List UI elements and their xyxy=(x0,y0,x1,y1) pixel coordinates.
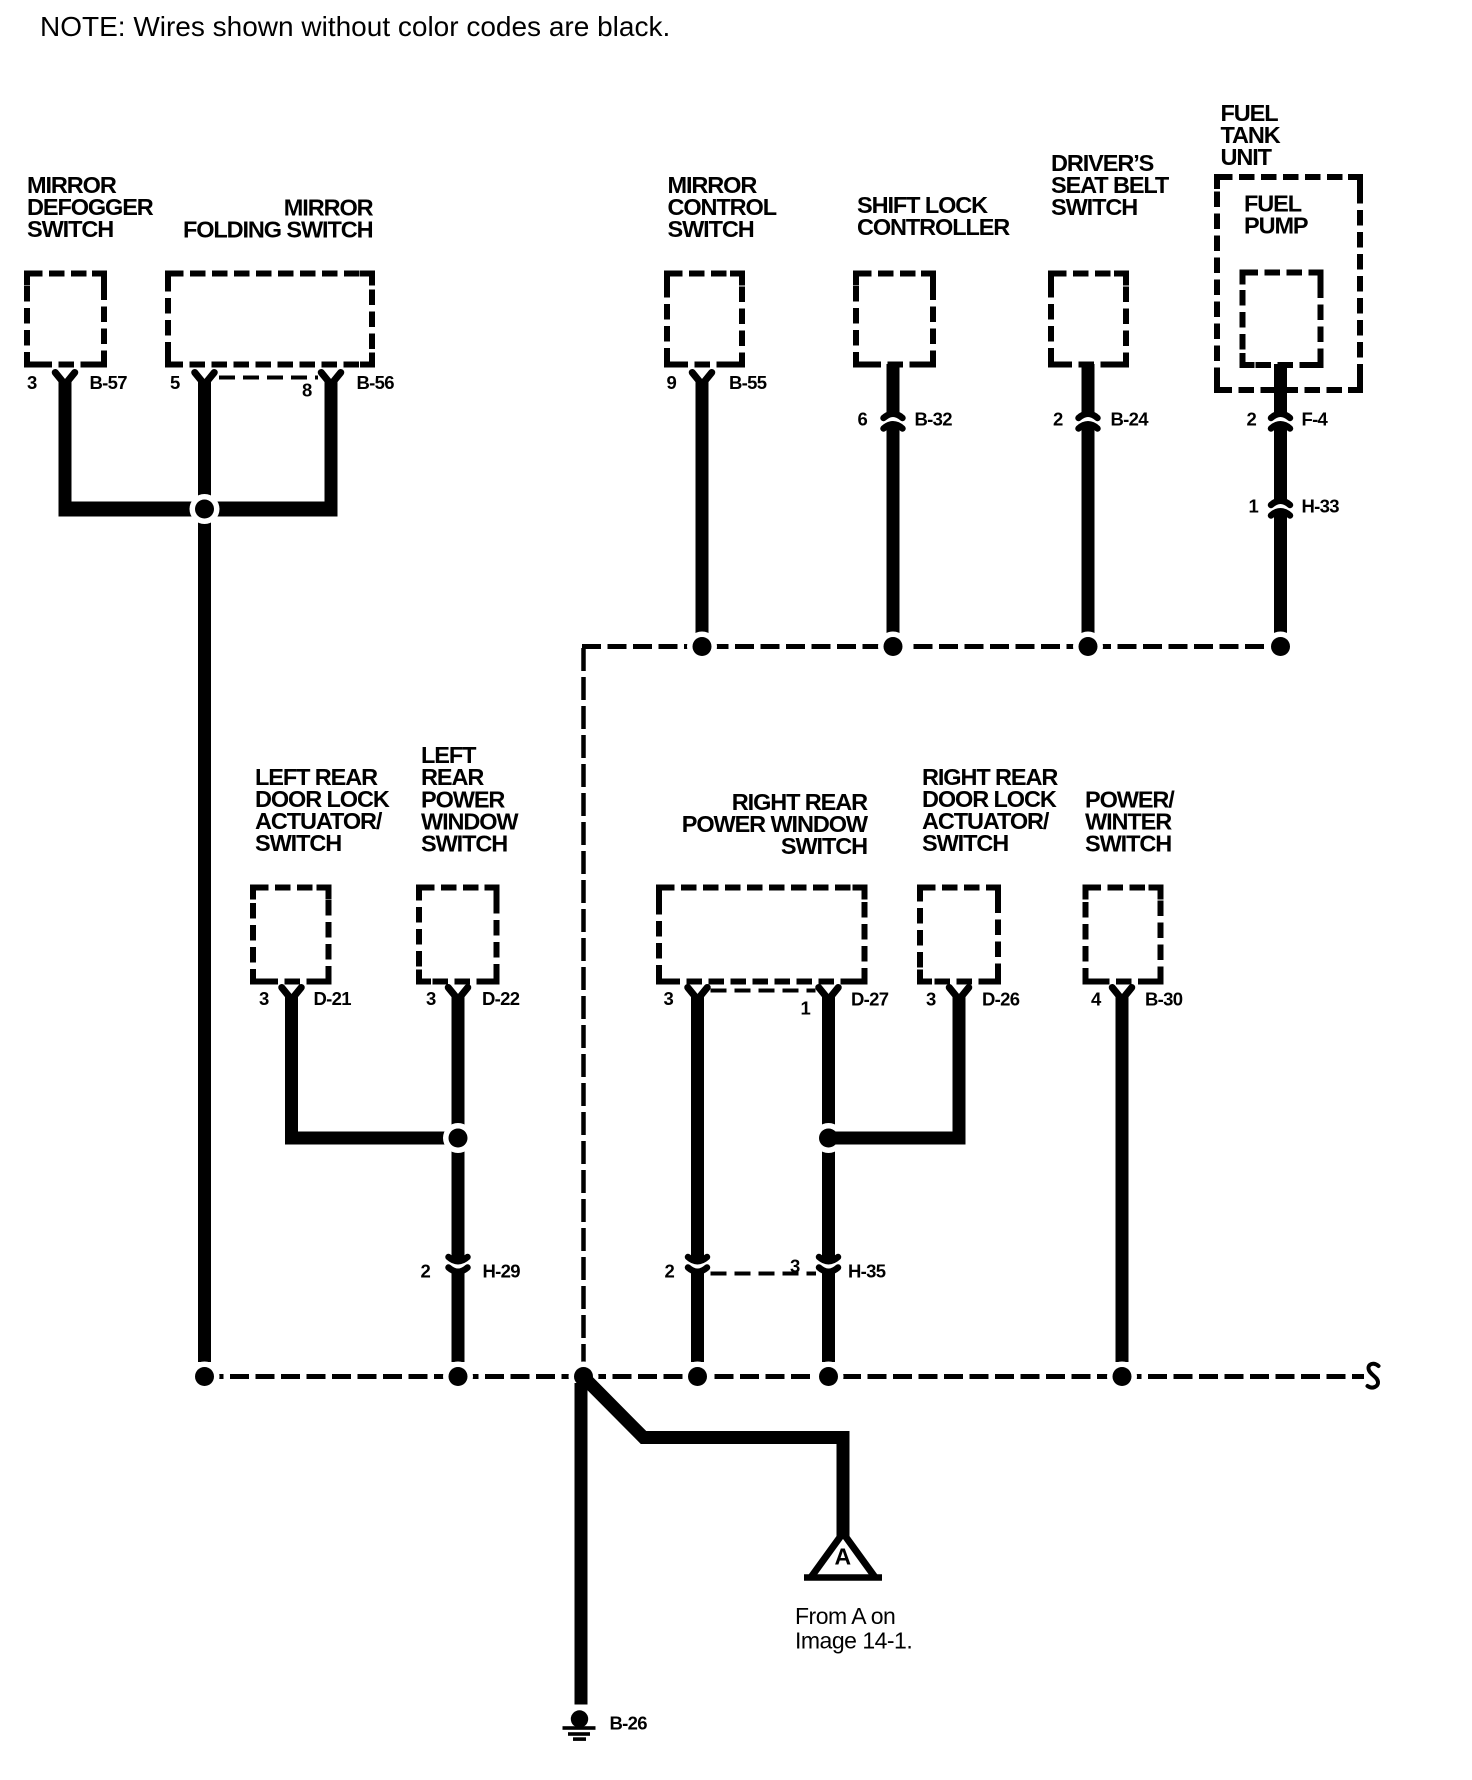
inline connector H-33 pin 1 xyxy=(1269,493,1292,503)
svg-text:4: 4 xyxy=(1091,989,1102,1010)
wire: D-27 pin 1 down (upper) xyxy=(822,994,835,1263)
junction: shift lock to bus xyxy=(878,632,908,662)
svg-text:3: 3 xyxy=(790,1256,800,1277)
junction: B-30 wire to ground bus xyxy=(1107,1362,1137,1392)
svg-text:B-26: B-26 xyxy=(610,1713,648,1734)
svg-text:A: A xyxy=(835,1544,852,1570)
connector internal dashed link H-35 xyxy=(711,1272,817,1276)
junction: fuel pump to bus xyxy=(1266,632,1296,662)
svg-text:B-30: B-30 xyxy=(1145,989,1183,1010)
svg-text:5: 5 xyxy=(170,372,180,393)
wire: defogger switch pin 3 down xyxy=(59,379,72,517)
junction: D-27 pin 1 wire to ground bus xyxy=(814,1362,844,1392)
inline connector H-35 pin 2 xyxy=(686,1270,709,1280)
svg-text:2: 2 xyxy=(1247,409,1257,430)
wire: fuel pump middle xyxy=(1274,423,1287,499)
component box: power/winter switch xyxy=(1086,888,1161,982)
svg-text:SWITCH: SWITCH xyxy=(27,216,113,242)
svg-text:FOLDING SWITCH: FOLDING SWITCH xyxy=(183,217,373,243)
wire: mirror control switch pin 9 down xyxy=(696,379,709,633)
wire: B-30 pin 4 down to ground bus xyxy=(1116,994,1129,1362)
junction: D-27 pin 3 wire to ground bus xyxy=(683,1362,713,1392)
label: mirror defogger switch xyxy=(27,172,154,242)
inline connector H-29 pin 2 xyxy=(447,1270,470,1280)
inline connector F-4 pin 2 xyxy=(1269,406,1292,416)
svg-text:CONTROLLER: CONTROLLER xyxy=(857,214,1010,240)
label: right rear power window switch xyxy=(682,789,869,859)
svg-text:NOTE: Wires shown without colo: NOTE: Wires shown without color codes ar… xyxy=(40,11,670,42)
junction: seat belt to bus xyxy=(1073,632,1103,662)
svg-text:F-4: F-4 xyxy=(1302,409,1329,430)
component box: fuel pump (inner) xyxy=(1243,273,1321,366)
svg-text:SWITCH: SWITCH xyxy=(1051,194,1137,220)
connector terminal B-30 pin 4 xyxy=(1112,988,1132,1000)
svg-text:SWITCH: SWITCH xyxy=(421,831,507,857)
label: shift lock controller xyxy=(857,192,1010,240)
junction: D-26 branch on D-27 pin 1 wire xyxy=(814,1123,844,1153)
label: mirror folding switch xyxy=(183,194,374,242)
wire: D-27 pin 3 down (upper) xyxy=(691,994,704,1263)
connector internal dashed link B-56 xyxy=(219,376,318,380)
connector terminal B-57 pin 3 xyxy=(55,373,75,385)
junction: D-22 wire to ground bus xyxy=(443,1362,473,1392)
svg-text:UNIT: UNIT xyxy=(1221,144,1273,170)
wire: D-26 pin 3 down xyxy=(953,994,966,1145)
svg-text:H-29: H-29 xyxy=(483,1261,521,1282)
label: left rear power window switch xyxy=(421,742,519,856)
svg-text:3: 3 xyxy=(27,372,37,393)
connector terminal D-27 pin 1 xyxy=(819,988,839,1000)
wire: D-27 pin 3 down (lower) xyxy=(691,1274,704,1363)
svg-text:PUMP: PUMP xyxy=(1244,213,1308,239)
svg-text:SWITCH: SWITCH xyxy=(1085,831,1171,857)
svg-text:D-26: D-26 xyxy=(982,989,1020,1010)
junction: folding switch wire to ground bus xyxy=(190,1362,220,1392)
wire: branch D-26 to D-27 wire xyxy=(822,1132,966,1145)
wire: shift lock controller upper xyxy=(887,364,900,412)
connector terminal B-55 pin 9 xyxy=(692,373,712,385)
label: left rear door lock actuator/switch xyxy=(255,764,390,856)
svg-text:Image 14-1.: Image 14-1. xyxy=(795,1628,912,1654)
svg-text:From A on: From A on xyxy=(795,1603,895,1629)
svg-text:9: 9 xyxy=(667,372,677,393)
svg-text:H-33: H-33 xyxy=(1302,496,1340,517)
junction: bus to ground lead xyxy=(569,1362,599,1392)
wire: seat belt switch lower xyxy=(1082,423,1095,633)
connector terminal D-22 pin 3 xyxy=(448,988,468,1000)
connector terminal B-56 pin 5 xyxy=(195,373,215,385)
label: fuel pump xyxy=(1244,191,1308,239)
svg-text:B-57: B-57 xyxy=(90,372,128,393)
connector terminal D-27 pin 3 xyxy=(688,988,708,1000)
wire: folding switch pin 5 down to ground bus xyxy=(198,379,211,1362)
svg-text:SWITCH: SWITCH xyxy=(781,833,867,859)
svg-text:1: 1 xyxy=(1249,496,1259,517)
ground bus (dashed, bottom) xyxy=(205,1374,1365,1379)
svg-text:8: 8 xyxy=(302,380,312,401)
svg-text:B-56: B-56 xyxy=(357,372,395,393)
ground bus vertical dashed segment xyxy=(581,648,586,1377)
component box: driver's seat belt switch xyxy=(1051,274,1126,365)
inline connector B-32 pin 6 xyxy=(882,406,905,416)
svg-text:B-24: B-24 xyxy=(1111,409,1150,430)
junction: D-21 branch on D-22 wire xyxy=(443,1123,473,1153)
svg-text:D-27: D-27 xyxy=(851,989,889,1010)
svg-text:6: 6 xyxy=(858,409,868,430)
connector terminal B-56 pin 8 xyxy=(321,373,341,385)
inline connector H-35 pin 3 xyxy=(817,1270,840,1280)
junction: defogger/folding branch xyxy=(190,494,220,524)
wire: ground lead down to B-26 xyxy=(575,1383,588,1705)
wire: fuel pump upper xyxy=(1274,364,1287,412)
wire: folding switch pin 8 down xyxy=(325,379,338,517)
component box: left rear door lock actuator/switch xyxy=(253,888,329,982)
svg-text:2: 2 xyxy=(421,1261,431,1282)
wire: D-22 pin 3 down (upper) xyxy=(452,994,465,1263)
connector internal dashed link D-27 xyxy=(711,989,816,993)
svg-text:SWITCH: SWITCH xyxy=(922,830,1008,856)
svg-text:2: 2 xyxy=(1053,409,1063,430)
component box: shift lock controller xyxy=(856,274,933,365)
wire: lead to triangle A reference xyxy=(584,1378,843,1538)
svg-text:2: 2 xyxy=(665,1261,675,1282)
ground bus (dashed, mid level) xyxy=(582,644,1281,649)
label: driver's seat belt switch xyxy=(1051,150,1170,220)
wire: D-27 pin 1 down (lower) xyxy=(822,1274,835,1363)
label: right rear door lock actuator/switch xyxy=(922,764,1058,856)
wire: branch joining pins 3/5/8 xyxy=(59,502,338,517)
component box: mirror defogger switch xyxy=(27,274,104,365)
wire: D-21 pin 3 down xyxy=(285,994,298,1145)
connector terminal D-21 pin 3 xyxy=(282,988,302,1000)
wire: D-22 pin 3 down (lower) xyxy=(452,1274,465,1363)
off-page reference triangle A xyxy=(814,1538,872,1575)
label: power/winter switch xyxy=(1085,786,1175,856)
component box: fuel tank unit (outer) xyxy=(1217,177,1360,390)
svg-text:D-22: D-22 xyxy=(482,988,520,1009)
label: fuel tank unit xyxy=(1221,100,1281,170)
inline connector B-24 pin 2 xyxy=(1077,406,1100,416)
svg-text:3: 3 xyxy=(426,988,436,1009)
component box: right rear power window switch xyxy=(659,888,865,982)
connector terminal D-26 pin 3 xyxy=(949,988,969,1000)
svg-text:B-32: B-32 xyxy=(915,409,953,430)
svg-text:3: 3 xyxy=(926,989,936,1010)
wire: branch D-21 to D-22 wire xyxy=(285,1132,465,1145)
wire: fuel pump lower xyxy=(1274,510,1287,633)
svg-text:B-55: B-55 xyxy=(729,372,767,393)
wire: seat belt switch upper xyxy=(1082,364,1095,412)
ground symbol B-26 xyxy=(563,1710,596,1741)
svg-text:D-21: D-21 xyxy=(314,988,352,1009)
wire: shift lock controller lower xyxy=(887,423,900,633)
component box: mirror folding switch xyxy=(168,274,372,365)
svg-text:1: 1 xyxy=(801,998,811,1019)
component box: right rear door lock actuator/switch xyxy=(920,888,998,982)
svg-text:SWITCH: SWITCH xyxy=(255,830,341,856)
label: mirror control switch xyxy=(668,172,777,242)
bus continuation squiggle S xyxy=(1368,1364,1379,1388)
svg-text:H-35: H-35 xyxy=(848,1261,886,1282)
svg-text:3: 3 xyxy=(259,988,269,1009)
component box: mirror control switch xyxy=(667,274,742,365)
junction: mirror control to bus xyxy=(687,632,717,662)
component box: left rear power window switch xyxy=(419,888,497,982)
svg-text:3: 3 xyxy=(664,988,674,1009)
svg-text:SWITCH: SWITCH xyxy=(668,216,754,242)
